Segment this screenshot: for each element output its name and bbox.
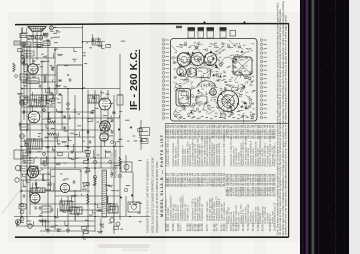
component value labels bbox=[20, 27, 143, 231]
switch S2 terminals bbox=[20, 203, 24, 207]
electrolytic can top bbox=[210, 89, 217, 96]
margin note text bbox=[275, 1, 287, 235]
tube socket C bbox=[204, 53, 217, 66]
parts list columns bbox=[164, 124, 277, 231]
tube V5 bbox=[30, 193, 40, 203]
rear apron socket bbox=[230, 31, 236, 37]
svg-text:Condenser, mica .0001: Condenser, mica .0001 bbox=[218, 142, 221, 167]
resistor R1 bbox=[13, 63, 15, 72]
resistor R10 bbox=[94, 177, 96, 186]
resistor R7 bbox=[39, 220, 47, 222]
junction dots bbox=[21, 41, 131, 227]
chassis wedge pointers bbox=[179, 50, 248, 113]
chassis shield cans bbox=[188, 27, 196, 30]
arrow A5 bbox=[130, 126, 133, 128]
filter choke L4 bbox=[108, 206, 118, 213]
svg-text:VOLTAGES AT SOCKET: VOLTAGES AT SOCKET bbox=[111, 151, 114, 178]
tube V1 bbox=[28, 64, 38, 74]
volume control R3 bbox=[20, 101, 25, 106]
scan edge black band bbox=[300, 0, 349, 254]
svg-text:MEASURED TO CHASSIS: MEASURED TO CHASSIS bbox=[115, 149, 118, 178]
antenna terminal strip bbox=[176, 26, 182, 28]
tube V9 bbox=[100, 133, 108, 141]
schematic footnote blocks bbox=[111, 149, 160, 233]
oscillator coil L3 bbox=[88, 95, 99, 103]
phono input box bbox=[92, 39, 100, 45]
capacitor C6 bbox=[64, 126, 66, 129]
trimmer C10 bbox=[112, 112, 115, 114]
IF transformer T2 bbox=[30, 95, 46, 106]
resistor R8 bbox=[87, 194, 89, 204]
svg-text:43-577: 43-577 bbox=[179, 223, 182, 231]
scan crease bbox=[2, 162, 45, 214]
parts list left rule bbox=[165, 124, 167, 232]
arrow A4 bbox=[118, 128, 121, 130]
arrow A2 bbox=[131, 194, 134, 196]
parts list table top rule bbox=[165, 123, 288, 125]
scan smudge bbox=[98, 244, 150, 248]
resistor R9 bbox=[119, 157, 121, 166]
resistor R5 bbox=[47, 121, 56, 123]
tube V4 bbox=[27, 166, 38, 177]
pocket rectangle 2 bbox=[51, 170, 82, 192]
padder C9 bbox=[90, 112, 93, 114]
right margin bbox=[349, 0, 360, 254]
tube V8 bbox=[100, 121, 110, 131]
tube V7 bbox=[99, 98, 111, 110]
electrolytic C21 bbox=[28, 224, 33, 229]
svg-text:34-776: 34-776 bbox=[216, 223, 219, 231]
power transformer top view bbox=[176, 89, 191, 107]
svg-text:specify model and code number: specify model and code number when order… bbox=[284, 15, 288, 235]
loop antenna bbox=[28, 27, 46, 32]
capacitor C5 bbox=[64, 115, 66, 118]
grid cap wire bbox=[32, 61, 34, 64]
chassis left callout column bbox=[162, 39, 169, 119]
tube V3 bbox=[28, 111, 40, 123]
tube V6 bbox=[60, 183, 69, 192]
tone control R4 bbox=[20, 134, 25, 139]
coil above output tube bbox=[31, 188, 45, 193]
scan streaks bbox=[40, 0, 265, 254]
capacitor C8 bbox=[98, 210, 101, 212]
svg-text:45-686: 45-686 bbox=[172, 223, 175, 231]
tuning gang bbox=[233, 57, 252, 75]
chassis callout numbers bbox=[172, 42, 256, 119]
capacitor C2 bbox=[52, 67, 54, 70]
small parts clusters bbox=[15, 45, 147, 234]
svg-text:Volume control and switch a: Volume control and switch a bbox=[177, 137, 180, 167]
right page border rule bbox=[288, 24, 290, 238]
ground G2 bbox=[66, 228, 70, 232]
capacitor C4 bbox=[58, 94, 61, 96]
wire bbox=[53, 27, 82, 29]
detector diode box bbox=[14, 150, 23, 159]
dial lamp box bbox=[121, 162, 132, 172]
svg-text:MODEL 5L16-B — PARTS LIST: MODEL 5L16-B — PARTS LIST bbox=[159, 134, 164, 217]
speaker top view bbox=[218, 91, 239, 112]
chassis interior leader lines bbox=[171, 40, 254, 124]
svg-text:CONDENSER PF 25, 27 IN R.F. UN: CONDENSER PF 25, 27 IN R.F. UNIT PART OF… bbox=[147, 159, 150, 233]
svg-text:Condenser, mica .0001 mf: Condenser, mica .0001 mf bbox=[167, 139, 170, 167]
power switch box bbox=[128, 202, 140, 212]
arrow A1 bbox=[120, 196, 123, 198]
svg-text:30-977: 30-977 bbox=[206, 223, 209, 231]
filter choke bbox=[196, 96, 207, 104]
dial scale bbox=[197, 81, 216, 87]
pilot lamp bbox=[49, 26, 53, 30]
tube socket A bbox=[177, 53, 191, 67]
IF transformer T3 bbox=[27, 139, 42, 149]
resistor R6 bbox=[47, 133, 56, 135]
tube socket B bbox=[191, 53, 204, 66]
rectifier filter caps bbox=[110, 218, 114, 222]
speaker field coil L2 bbox=[70, 207, 82, 214]
antenna coil T1 bbox=[43, 33, 48, 35]
svg-text:MODEL 5L16-B CODE 121 CHASSIS: MODEL 5L16-B CODE 121 CHASSIS OPERATES 1… bbox=[152, 157, 155, 233]
oscillator padder C3 bbox=[58, 80, 61, 82]
pocket rectangle bbox=[57, 65, 83, 89]
phono jack J1 bbox=[22, 42, 26, 46]
ground G1 bbox=[46, 228, 50, 232]
resistor R2 bbox=[44, 75, 46, 83]
chassis layout outline bbox=[171, 39, 258, 122]
chassis right callout column bbox=[260, 39, 267, 119]
svg-text:28-736: 28-736 bbox=[201, 223, 204, 231]
mid chain components bbox=[86, 153, 127, 191]
capacitor C1 bbox=[46, 40, 49, 42]
bias cell bbox=[15, 165, 20, 170]
top border rule bbox=[15, 24, 289, 25]
bottom border rule bbox=[15, 236, 289, 238]
schematic wiring grid bbox=[14, 24, 150, 239]
tube socket E bbox=[187, 68, 196, 77]
svg-text:Socket, octal w: Socket, octal w bbox=[187, 205, 190, 221]
band switch S1 bbox=[21, 55, 24, 58]
tube socket D bbox=[177, 67, 186, 76]
box near IF label bbox=[117, 95, 123, 105]
left spine components bbox=[19, 51, 51, 212]
svg-text:IF - 260 K.C.: IF - 260 K.C. bbox=[129, 49, 140, 110]
output transformer T4 bbox=[60, 201, 72, 211]
electrolytic C20 bbox=[16, 220, 21, 225]
svg-text:89-321: 89-321 bbox=[167, 223, 170, 231]
svg-text:Transformer, out: Transformer, out bbox=[201, 204, 204, 221]
aux box cluster bbox=[140, 128, 150, 144]
band specks bbox=[327, 6, 337, 248]
arrow A3 bbox=[87, 158, 90, 160]
IF can top view bbox=[197, 68, 211, 78]
candohm strip bbox=[102, 170, 107, 217]
antenna section cluster bbox=[14, 31, 50, 46]
